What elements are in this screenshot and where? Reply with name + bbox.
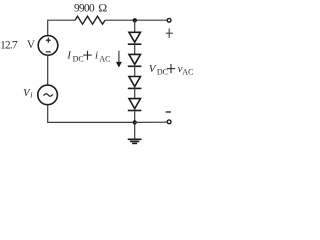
ac source Vi xyxy=(38,85,58,105)
svg-text:V: V xyxy=(27,39,35,51)
dc source 12.7 V xyxy=(38,36,58,56)
diode D1 xyxy=(128,32,142,44)
svg-text:Ω: Ω xyxy=(98,1,107,15)
terminal − (open circle) xyxy=(167,120,171,124)
ground xyxy=(128,122,142,143)
minus sign at output xyxy=(166,111,171,113)
svg-text:i: i xyxy=(30,91,32,100)
wire bottom-left segment xyxy=(48,105,135,123)
wire between sources xyxy=(47,55,49,85)
diode D4 xyxy=(128,99,142,111)
svg-text:AC: AC xyxy=(182,68,193,77)
diode D2 xyxy=(128,54,142,66)
label IDC + iAC xyxy=(66,49,110,63)
diode D3 xyxy=(128,77,142,89)
label VDC + vAC xyxy=(149,63,194,77)
svg-text:DC: DC xyxy=(157,68,168,77)
svg-text:12.7: 12.7 xyxy=(0,39,18,51)
wire D3 to D4 xyxy=(134,87,136,99)
wire D4 to bottom node xyxy=(134,109,136,123)
wire bottom-right segment xyxy=(135,121,167,123)
node top junction xyxy=(133,18,137,22)
terminal + (open circle) xyxy=(167,18,171,22)
resistor R 9900 ohm xyxy=(75,16,105,24)
wire node to diode D1 xyxy=(134,20,136,32)
node bottom junction xyxy=(133,120,137,124)
wire D2 to D3 xyxy=(134,64,136,76)
svg-text:DC: DC xyxy=(73,55,84,64)
current arrow down xyxy=(116,51,122,68)
wire D1 to D2 xyxy=(134,42,136,54)
svg-text:i: i xyxy=(95,49,98,61)
svg-text:AC: AC xyxy=(99,55,110,64)
svg-text:9900: 9900 xyxy=(74,3,95,15)
wire top-right segment xyxy=(105,19,167,21)
plus sign at output xyxy=(166,28,173,38)
wire top-left segment xyxy=(48,20,75,35)
